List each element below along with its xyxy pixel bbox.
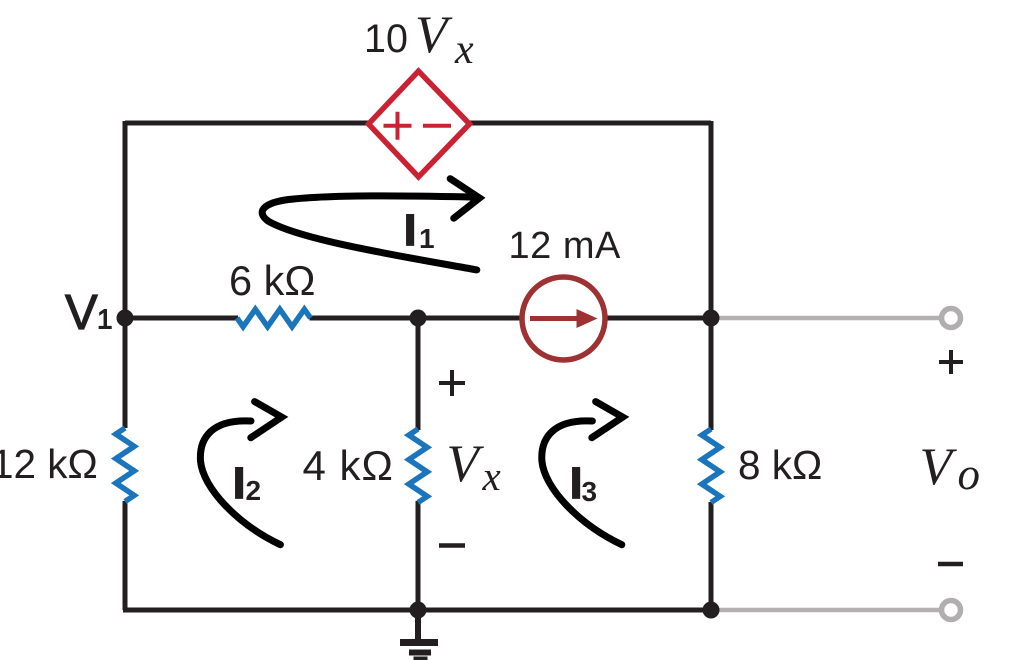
svg-text:o: o [958, 449, 981, 499]
wire: grey output lead bottom [711, 608, 941, 613]
wire: left rail upper segment [123, 121, 128, 428]
svg-text:1: 1 [97, 304, 113, 335]
svg-text:3: 3 [582, 476, 598, 507]
node middle dot [410, 310, 427, 327]
terminal circle top [942, 309, 961, 328]
wire: middle horizontal wire right of 6k [310, 316, 712, 321]
wire: top wire [125, 121, 711, 126]
wire: middle branch lower segment [416, 501, 421, 610]
plus sign inside source [384, 112, 412, 140]
resistor 12 kOhm zigzag [116, 428, 134, 502]
svg-text:12 mA: 12 mA [509, 225, 621, 267]
label Vx plus [439, 370, 465, 396]
svg-text:V: V [920, 438, 958, 496]
svg-text:x: x [482, 453, 501, 499]
wire: middle branch upper segment [416, 318, 421, 430]
minus sign inside source [423, 124, 451, 128]
svg-text:2: 2 [246, 475, 262, 506]
resistor 8 kOhm zigzag [702, 429, 720, 503]
wire: bottom wire [123, 608, 711, 613]
svg-text:x: x [454, 27, 474, 73]
node bottom-right dot [703, 602, 720, 619]
svg-text:6 kΩ: 6 kΩ [229, 257, 315, 304]
wire: middle horizontal wire left of 6k [125, 316, 238, 321]
svg-text:12 kΩ: 12 kΩ [0, 441, 98, 487]
wire: right rail upper segment [709, 121, 714, 430]
mesh arrow I3 [542, 402, 623, 545]
svg-text:V: V [65, 286, 98, 340]
label Vo minus [938, 562, 963, 567]
svg-text:I: I [570, 459, 582, 508]
label Vo plus [939, 350, 963, 374]
mesh arrow I1 [262, 179, 479, 270]
ground [400, 610, 438, 660]
svg-text:8 kΩ: 8 kΩ [738, 442, 822, 488]
dependent voltage source diamond 10Vx [369, 71, 470, 177]
resistor 6 kOhm zigzag [237, 309, 311, 326]
wire: right rail lower segment [709, 502, 714, 612]
current source arrow [530, 316, 578, 321]
svg-text:V: V [447, 435, 485, 493]
label Vx minus [439, 543, 465, 548]
mesh arrow I2 [200, 402, 281, 545]
terminal circle bottom [942, 601, 961, 620]
svg-text:I: I [233, 459, 245, 508]
wire: left rail lower segment [123, 501, 128, 610]
svg-text:10: 10 [364, 17, 408, 61]
svg-text:V: V [415, 6, 453, 64]
node right-middle dot [703, 310, 720, 327]
resistor 4 kOhm zigzag [409, 429, 427, 503]
svg-text:1: 1 [419, 223, 435, 254]
wire: grey output lead top [711, 316, 941, 321]
node V1 dot [117, 310, 134, 327]
svg-text:4 kΩ: 4 kΩ [303, 442, 394, 489]
node bottom-middle dot [410, 602, 427, 619]
current source 12 mA [522, 277, 605, 360]
svg-text:I: I [404, 206, 416, 255]
